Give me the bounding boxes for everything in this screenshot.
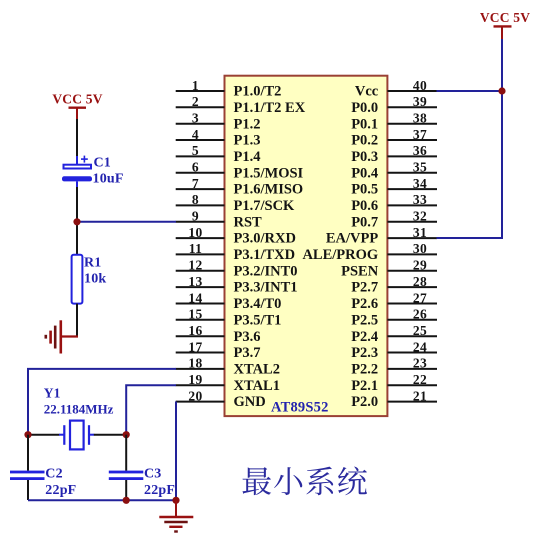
svg-text:12: 12: [188, 258, 202, 273]
svg-text:P2.0: P2.0: [351, 394, 378, 410]
pin 24 P2.3: [351, 339, 437, 361]
capacitor C1 polarized symbol: [62, 156, 92, 182]
svg-text:22: 22: [413, 372, 427, 387]
pin 17 P3.7: [176, 339, 261, 361]
svg-text:35: 35: [413, 160, 427, 175]
wire GND net from pin 20 down: [175, 402, 177, 501]
svg-text:4: 4: [192, 127, 199, 142]
svg-text:P1.6/MISO: P1.6/MISO: [234, 182, 304, 198]
Y1 value 22.1184MHz: [44, 402, 114, 417]
svg-text:P0.1: P0.1: [351, 116, 378, 132]
pin 23 P2.2: [351, 356, 437, 378]
capacitor C3 symbol: [109, 471, 144, 480]
pin 2 P1.1/T2 EX: [176, 94, 306, 116]
pin 19 XTAL1: [176, 372, 280, 394]
wire crystal left lead: [28, 434, 60, 436]
R1 designator label: [84, 256, 102, 271]
node junction XTAL1/C3: [123, 431, 130, 438]
svg-text:P0.0: P0.0: [351, 100, 378, 116]
svg-text:39: 39: [413, 94, 427, 109]
wire ground rail: [28, 499, 176, 501]
wire VCC to C1: [76, 119, 78, 165]
svg-text:32: 32: [413, 209, 427, 224]
pin 38 P0.1: [351, 111, 437, 133]
power VCC 5V (left) label: [52, 92, 102, 107]
svg-text:P2.4: P2.4: [351, 329, 378, 345]
capacitor C2 symbol: [10, 471, 45, 480]
svg-text:1: 1: [192, 78, 199, 93]
pin 9 RST: [176, 209, 262, 231]
svg-text:C3: C3: [144, 467, 162, 482]
svg-text:P1.2: P1.2: [234, 116, 261, 132]
svg-text:15: 15: [188, 307, 202, 322]
svg-text:19: 19: [188, 372, 202, 387]
svg-text:P2.7: P2.7: [351, 280, 378, 296]
svg-text:40: 40: [413, 78, 427, 93]
pin 34 P0.5: [351, 176, 437, 198]
pin 15 P3.5/T1: [176, 307, 282, 329]
C3 designator label: [144, 467, 162, 482]
wire XTAL1 net from pin 19: [126, 385, 176, 435]
svg-text:27: 27: [413, 290, 427, 305]
svg-text:10: 10: [188, 225, 202, 240]
pin 27 P2.6: [351, 290, 437, 312]
pin 8 P1.7/SCK: [176, 192, 295, 214]
svg-text:33: 33: [413, 192, 427, 207]
pin 40 Vcc: [355, 78, 437, 100]
ground symbol (left, rotated): [46, 320, 78, 353]
svg-text:P2.1: P2.1: [351, 378, 378, 394]
pin 33 P0.6: [351, 192, 437, 214]
svg-text:P2.2: P2.2: [351, 362, 378, 378]
svg-text:P1.5/MOSI: P1.5/MOSI: [234, 165, 304, 181]
pin 16 P3.6: [176, 323, 261, 345]
pin 3 P1.2: [176, 111, 261, 133]
pin 32 P0.7: [351, 209, 437, 231]
svg-text:P2.6: P2.6: [351, 296, 378, 312]
svg-text:20: 20: [188, 388, 202, 403]
pin 31 EA/VPP: [326, 225, 437, 247]
svg-text:31: 31: [413, 225, 427, 240]
C2 designator label: [45, 467, 63, 482]
svg-text:P1.7/SCK: P1.7/SCK: [234, 198, 296, 214]
pin 21 P2.0: [351, 388, 437, 410]
svg-text:P1.3: P1.3: [234, 133, 261, 149]
pin 6 P1.5/MOSI: [176, 160, 304, 182]
svg-text:PSEN: PSEN: [341, 263, 379, 279]
svg-text:28: 28: [413, 274, 427, 289]
svg-text:P0.2: P0.2: [351, 133, 378, 149]
node junction Vcc pin 40: [498, 87, 505, 94]
svg-text:22pF: 22pF: [45, 483, 76, 498]
svg-text:38: 38: [413, 111, 427, 126]
wire XTAL2 net from pin 18: [28, 369, 176, 435]
svg-text:2: 2: [192, 94, 199, 109]
svg-text:C1: C1: [94, 156, 112, 171]
pin 22 P2.1: [351, 372, 437, 394]
wire R1 to ground: [76, 304, 78, 338]
svg-text:P0.3: P0.3: [351, 149, 378, 165]
pin 30 ALE/PROG: [302, 241, 437, 263]
svg-text:3: 3: [192, 111, 199, 126]
svg-text:XTAL1: XTAL1: [234, 378, 280, 394]
wire VCC net to pin 40 and pin 31: [437, 39, 503, 238]
svg-text:Vcc: Vcc: [355, 84, 379, 100]
svg-text:P0.5: P0.5: [351, 182, 378, 198]
node label title: Chinese text (minimal system): [242, 467, 367, 496]
svg-text:37: 37: [413, 127, 427, 142]
ground symbol (bottom): [159, 500, 193, 531]
svg-text:6: 6: [192, 160, 199, 175]
pin 26 P2.5: [351, 307, 437, 329]
pin 20 GND: [176, 388, 266, 410]
svg-text:24: 24: [413, 339, 427, 354]
svg-text:30: 30: [413, 241, 427, 256]
pin 25 P2.4: [351, 323, 437, 345]
svg-text:Y1: Y1: [44, 386, 61, 401]
svg-text:P0.6: P0.6: [351, 198, 378, 214]
svg-text:P2.3: P2.3: [351, 345, 378, 361]
node junction XTAL2/C2: [24, 431, 31, 438]
node junction GND/rail: [172, 497, 179, 504]
svg-text:16: 16: [188, 323, 202, 338]
svg-text:EA/VPP: EA/VPP: [326, 231, 379, 247]
svg-text:10uF: 10uF: [93, 172, 124, 187]
pin 13 P3.3/INT1: [176, 274, 298, 296]
pin 29 PSEN: [341, 258, 437, 280]
power VCC bar symbol (left): [69, 108, 87, 120]
resistor R1: [72, 255, 83, 304]
svg-text:AT89S52: AT89S52: [271, 400, 329, 416]
Y1 designator label: [44, 386, 61, 401]
svg-text:23: 23: [413, 356, 427, 371]
svg-text:17: 17: [188, 339, 202, 354]
svg-text:5: 5: [192, 143, 199, 158]
pin 4 P1.3: [176, 127, 261, 149]
svg-text:P3.2/INT0: P3.2/INT0: [234, 263, 298, 279]
svg-text:8: 8: [192, 192, 199, 207]
svg-text:C2: C2: [45, 467, 63, 482]
C3 value 22pF: [144, 483, 175, 498]
svg-text:29: 29: [413, 258, 427, 273]
svg-text:34: 34: [413, 176, 427, 191]
C1 designator label: [94, 156, 112, 171]
wire RST net to pin 9: [77, 221, 176, 223]
wire XTAL2 node to C2: [27, 435, 29, 471]
R1 value 10k: [84, 272, 106, 287]
C2 value 22pF: [45, 483, 76, 498]
wire C2 to ground rail: [27, 480, 29, 500]
svg-text:7: 7: [192, 176, 199, 191]
svg-text:R1: R1: [84, 256, 102, 271]
pin 5 P1.4: [176, 143, 261, 165]
pin 28 P2.7: [351, 274, 437, 296]
pin 7 P1.6/MISO: [176, 176, 303, 198]
svg-text:ALE/PROG: ALE/PROG: [302, 247, 378, 263]
pin 14 P3.4/T0: [176, 290, 282, 312]
pin 36 P0.3: [351, 143, 437, 165]
svg-text:P2.5: P2.5: [351, 312, 378, 328]
svg-text:P3.6: P3.6: [234, 329, 261, 345]
svg-text:25: 25: [413, 323, 427, 338]
svg-text:26: 26: [413, 307, 427, 322]
svg-text:14: 14: [188, 290, 202, 305]
power VCC bar symbol (right): [494, 26, 512, 40]
wire C3 to ground rail: [125, 480, 127, 500]
svg-text:P1.0/T2: P1.0/T2: [234, 84, 282, 100]
pin 11 P3.1/TXD: [176, 241, 295, 263]
C1 value 10uF: [93, 172, 124, 187]
svg-text:P0.4: P0.4: [351, 165, 378, 181]
IC U1 AT89S52 microcontroller body: [225, 76, 388, 416]
svg-text:13: 13: [188, 274, 202, 289]
pin 39 P0.0: [351, 94, 437, 116]
node junction RST: [73, 218, 80, 225]
svg-text:GND: GND: [234, 394, 266, 410]
svg-text:11: 11: [189, 241, 203, 256]
pin 1 P1.0/T2: [176, 78, 282, 100]
svg-text:P0.7: P0.7: [351, 214, 378, 230]
svg-text:22pF: 22pF: [144, 483, 175, 498]
svg-text:21: 21: [413, 388, 427, 403]
pin 35 P0.4: [351, 160, 437, 182]
svg-text:18: 18: [188, 356, 202, 371]
svg-text:P3.1/TXD: P3.1/TXD: [234, 247, 296, 263]
svg-text:XTAL2: XTAL2: [234, 362, 280, 378]
svg-text:VCC 5V: VCC 5V: [52, 92, 102, 107]
svg-text:P1.1/T2 EX: P1.1/T2 EX: [234, 100, 306, 116]
svg-text:P3.5/T1: P3.5/T1: [234, 312, 282, 328]
pin 12 P3.2/INT0: [176, 258, 298, 280]
node junction C3/rail: [123, 497, 130, 504]
svg-text:10k: 10k: [84, 272, 106, 287]
svg-text:P3.0/RXD: P3.0/RXD: [234, 231, 296, 247]
pin 18 XTAL2: [176, 356, 280, 378]
power VCC 5V (right) label: [480, 10, 530, 25]
svg-text:22.1184MHz: 22.1184MHz: [44, 402, 114, 417]
pin 10 P3.0/RXD: [176, 225, 296, 247]
wire C1 to RST node: [76, 181, 78, 254]
pin 37 P0.2: [351, 127, 437, 149]
svg-text:VCC 5V: VCC 5V: [480, 10, 530, 25]
wire crystal right lead: [94, 434, 126, 436]
svg-text:P3.7: P3.7: [234, 345, 261, 361]
svg-text:9: 9: [192, 209, 199, 224]
svg-text:P1.4: P1.4: [234, 149, 261, 165]
svg-text:P3.4/T0: P3.4/T0: [234, 296, 282, 312]
svg-text:RST: RST: [234, 214, 263, 230]
wire XTAL1 node to C3: [125, 435, 127, 471]
svg-text:P3.3/INT1: P3.3/INT1: [234, 280, 298, 296]
crystal Y1 symbol: [59, 421, 94, 450]
svg-text:36: 36: [413, 143, 427, 158]
